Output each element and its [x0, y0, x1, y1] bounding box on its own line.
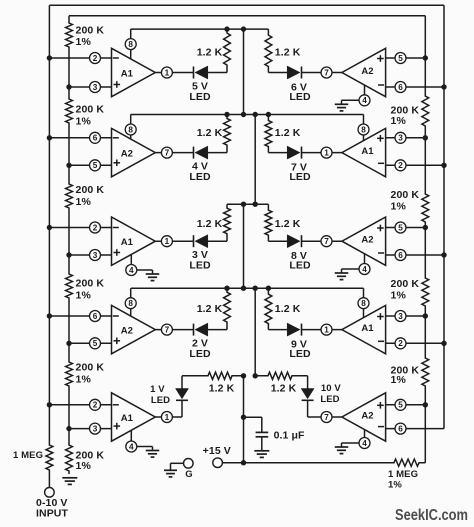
- svg-text:1%: 1%: [388, 480, 402, 491]
- svg-text:1%: 1%: [391, 374, 407, 386]
- svg-text:LED: LED: [289, 348, 311, 360]
- svg-text:4: 4: [129, 442, 134, 451]
- svg-text:1%: 1%: [76, 36, 92, 48]
- svg-text:1%: 1%: [76, 374, 92, 386]
- svg-text:4: 4: [362, 439, 367, 448]
- svg-text:A2: A2: [361, 66, 373, 77]
- svg-text:200 K: 200 K: [76, 25, 105, 37]
- svg-text:LED: LED: [289, 171, 311, 183]
- svg-text:7: 7: [324, 413, 329, 422]
- svg-text:5: 5: [93, 161, 98, 170]
- svg-text:1 V: 1 V: [150, 384, 165, 395]
- svg-text:1%: 1%: [76, 290, 92, 302]
- svg-text:7: 7: [324, 68, 329, 77]
- svg-text:1.2 K: 1.2 K: [209, 383, 235, 395]
- svg-text:0.1 μF: 0.1 μF: [274, 430, 305, 442]
- svg-text:1.2 K: 1.2 K: [275, 127, 301, 139]
- svg-text:A1: A1: [121, 69, 134, 80]
- svg-text:LED: LED: [189, 348, 211, 360]
- svg-text:2: 2: [93, 54, 98, 63]
- svg-text:1: 1: [324, 326, 329, 335]
- svg-text:6: 6: [398, 251, 403, 260]
- svg-text:4: 4: [362, 96, 367, 105]
- svg-text:1.2 K: 1.2 K: [271, 383, 297, 395]
- svg-text:1 MEG: 1 MEG: [388, 469, 418, 480]
- svg-text:1: 1: [324, 149, 329, 158]
- svg-text:200 K: 200 K: [76, 278, 105, 290]
- svg-text:G: G: [185, 469, 193, 480]
- svg-text:7: 7: [324, 237, 329, 246]
- svg-text:8: 8: [128, 299, 133, 308]
- svg-text:6: 6: [93, 134, 98, 143]
- svg-text:8: 8: [128, 125, 133, 134]
- svg-text:3: 3: [93, 251, 98, 260]
- svg-text:4: 4: [129, 266, 134, 275]
- svg-text:7: 7: [165, 326, 170, 335]
- svg-text:7: 7: [165, 149, 170, 158]
- svg-text:LED: LED: [289, 260, 311, 272]
- svg-text:5: 5: [398, 401, 403, 410]
- svg-text:1.2 K: 1.2 K: [197, 303, 223, 315]
- svg-text:A2: A2: [361, 411, 373, 422]
- svg-text:A2: A2: [121, 149, 133, 160]
- svg-text:200 K: 200 K: [76, 184, 105, 196]
- svg-text:1%: 1%: [76, 196, 92, 208]
- svg-text:8: 8: [361, 299, 366, 308]
- svg-text:200 K: 200 K: [391, 278, 420, 290]
- svg-text:6: 6: [398, 83, 403, 92]
- svg-text:10 V: 10 V: [321, 383, 342, 394]
- svg-text:1%: 1%: [391, 115, 407, 127]
- svg-text:1%: 1%: [76, 460, 92, 472]
- svg-text:1.2 K: 1.2 K: [275, 303, 301, 315]
- svg-text:200 K: 200 K: [391, 189, 420, 201]
- svg-text:LED: LED: [189, 260, 211, 272]
- svg-text:1.2 K: 1.2 K: [197, 218, 223, 230]
- svg-text:3: 3: [398, 134, 403, 143]
- svg-text:5: 5: [398, 54, 403, 63]
- svg-text:4: 4: [362, 265, 367, 274]
- svg-text:LED: LED: [189, 91, 211, 103]
- svg-text:6: 6: [93, 312, 98, 321]
- svg-text:8: 8: [128, 40, 133, 49]
- svg-text:2: 2: [93, 223, 98, 232]
- svg-text:1 MEG: 1 MEG: [13, 450, 43, 461]
- svg-text:A1: A1: [121, 237, 134, 248]
- svg-text:1%: 1%: [391, 290, 407, 302]
- svg-text:+15 V: +15 V: [203, 445, 231, 457]
- svg-text:1: 1: [165, 413, 170, 422]
- svg-text:2: 2: [398, 161, 403, 170]
- svg-text:2: 2: [398, 339, 403, 348]
- svg-text:LED: LED: [320, 394, 339, 405]
- svg-text:LED: LED: [289, 91, 311, 103]
- svg-text:A1: A1: [361, 146, 374, 157]
- svg-text:SeekIC.com: SeekIC.com: [395, 507, 468, 524]
- svg-text:1%: 1%: [391, 201, 407, 213]
- svg-text:3: 3: [398, 312, 403, 321]
- svg-text:1: 1: [165, 237, 170, 246]
- svg-text:3: 3: [93, 83, 98, 92]
- svg-text:5: 5: [398, 223, 403, 232]
- svg-text:LED: LED: [189, 171, 211, 183]
- svg-text:LED: LED: [151, 395, 170, 406]
- svg-text:A1: A1: [121, 413, 134, 424]
- svg-text:1: 1: [165, 68, 170, 77]
- svg-text:1%: 1%: [76, 116, 92, 128]
- svg-text:1.2 K: 1.2 K: [275, 46, 301, 58]
- svg-text:2: 2: [93, 401, 98, 410]
- svg-text:1.2 K: 1.2 K: [197, 127, 223, 139]
- svg-text:INPUT: INPUT: [36, 507, 68, 519]
- svg-text:200 K: 200 K: [76, 104, 105, 116]
- svg-text:1.2 K: 1.2 K: [197, 46, 223, 58]
- svg-text:1.2 K: 1.2 K: [275, 218, 301, 230]
- svg-text:8: 8: [361, 125, 366, 134]
- svg-text:200 K: 200 K: [76, 362, 105, 374]
- svg-text:3: 3: [93, 425, 98, 434]
- svg-text:5: 5: [93, 339, 98, 348]
- svg-text:A2: A2: [121, 326, 133, 337]
- svg-text:6: 6: [398, 425, 403, 434]
- svg-text:A1: A1: [361, 323, 374, 334]
- svg-text:A2: A2: [361, 235, 373, 246]
